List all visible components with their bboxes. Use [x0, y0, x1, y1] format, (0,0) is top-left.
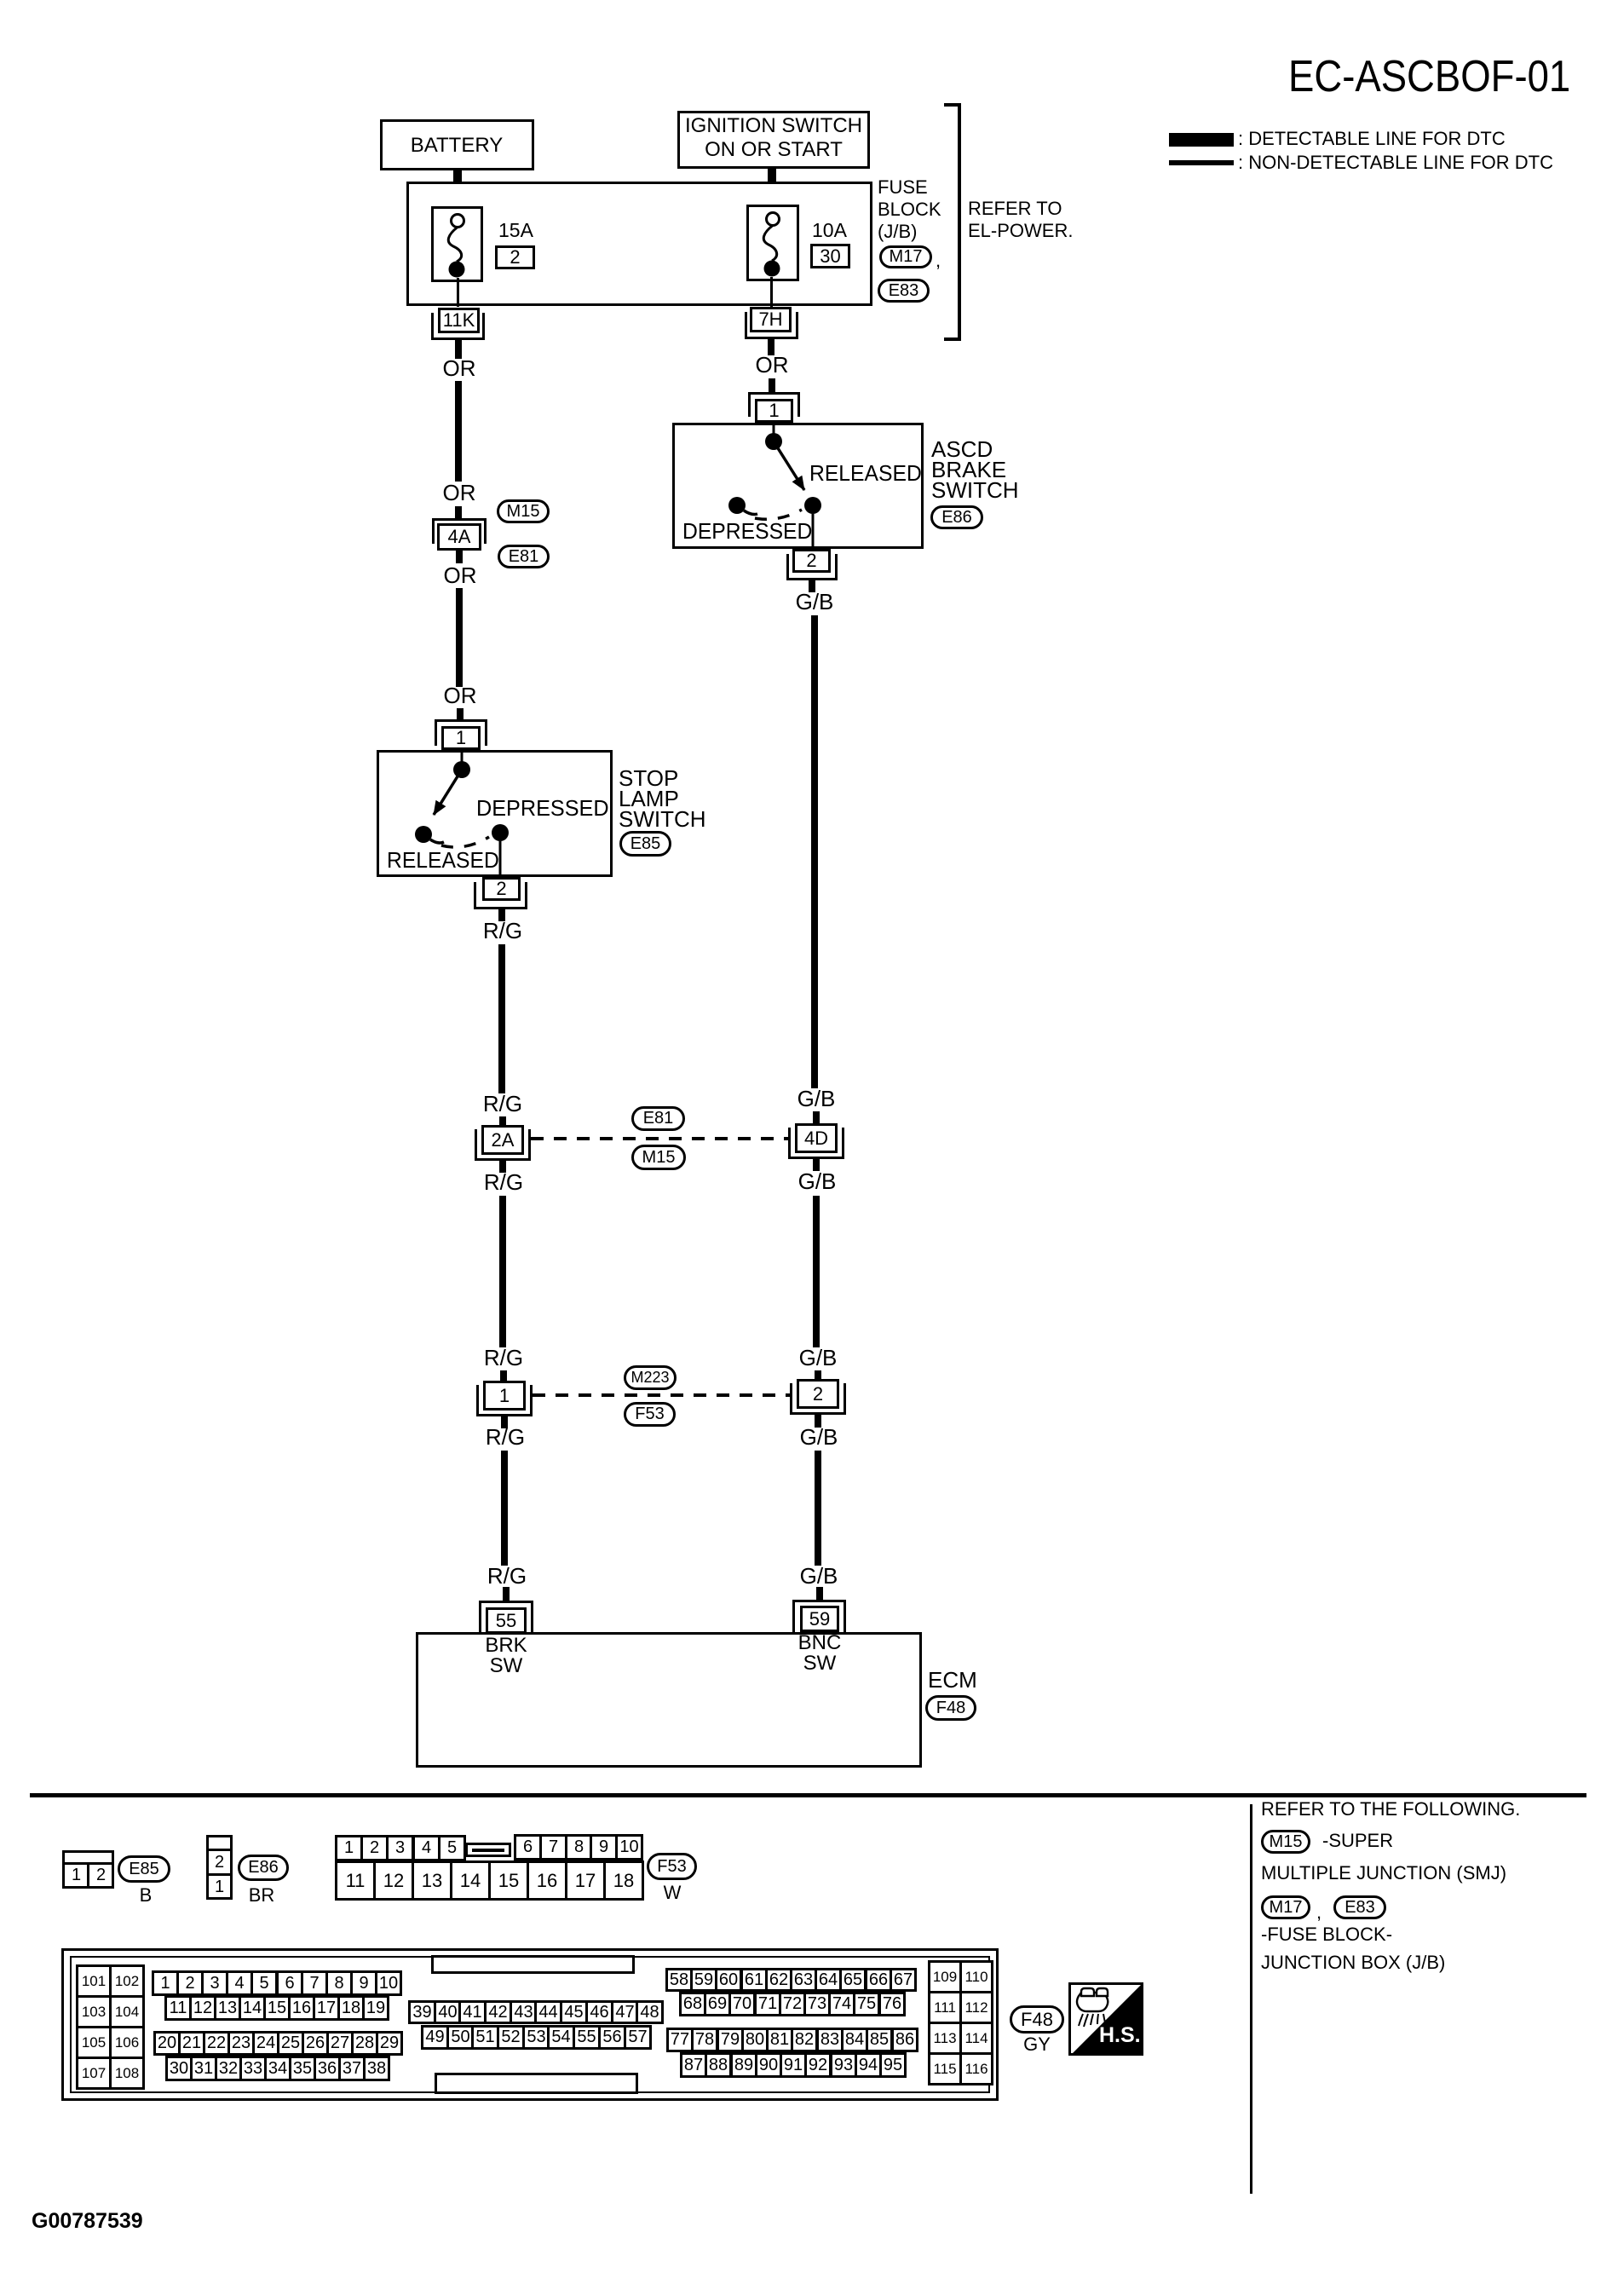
- note -FUSE BLOCK-: [1261, 1924, 1392, 1944]
- wire ignition switch to fuse block: [768, 166, 776, 182]
- fuse F 10A: [746, 205, 799, 281]
- ignition switch source: [677, 111, 870, 169]
- ECM pin 55 BRK SW: [479, 1601, 533, 1633]
- label 10A: [812, 220, 847, 240]
- connector ref E85: [619, 831, 671, 857]
- connector view F53 bottom row pins 11-18: [335, 1860, 376, 1901]
- label RELEASED (stop lamp): [387, 849, 499, 872]
- F48 bottom blank slot: [435, 2073, 638, 2094]
- connector ref M17 note: [1261, 1895, 1310, 1919]
- label RELEASED (ASCD): [809, 462, 922, 485]
- connector ref E86 bottom: [238, 1855, 289, 1881]
- wire stub below conn 1: [501, 1416, 508, 1428]
- wire battery to fuse block: [453, 168, 462, 182]
- wire stub into 4A: [455, 506, 462, 522]
- connector 1 (M223-F53): [476, 1385, 533, 1416]
- connector ref F48 bottom: [1010, 2005, 1064, 2034]
- bracket refer to el-power: [958, 103, 961, 341]
- connector ref M17: [879, 245, 932, 268]
- wire fuse2 to 7H: [770, 277, 773, 307]
- label G/B 1: [796, 591, 834, 614]
- comma after M17: [936, 251, 941, 270]
- connector view F53 top row pins 1-5: [335, 1835, 363, 1861]
- wire R/G long segment: [498, 944, 505, 1093]
- F48 pin row 87-95: [680, 2052, 707, 2078]
- battery: [380, 119, 534, 170]
- wire OR below 11K: [455, 340, 462, 359]
- F48 pin row 1-10: [152, 1970, 179, 1996]
- stop lamp switch box E85: [377, 750, 613, 877]
- connector view F53 keying slot: [465, 1843, 511, 1857]
- wire stub below 4D: [813, 1159, 820, 1171]
- label R/G 1: [483, 920, 522, 943]
- legend detectable line sample: [1169, 133, 1234, 147]
- note -SUPER: [1322, 1831, 1393, 1850]
- ASCD brake switch internals: [672, 423, 924, 549]
- fuse F 15A: [431, 206, 483, 282]
- connector ref M223: [624, 1365, 677, 1390]
- wire G/B segment 3: [815, 1451, 821, 1566]
- connector 7H: [745, 312, 798, 339]
- label DEPRESSED (stop lamp): [476, 797, 609, 820]
- F48 pin row 30-38: [165, 2056, 193, 2081]
- connector pin 1 ASCD brake switch: [748, 392, 800, 417]
- H.S. inspection logo: [1068, 1982, 1143, 2056]
- connector ref F53 bottom: [647, 1853, 697, 1880]
- wire R/G segment 2: [499, 1196, 506, 1347]
- label R/G above 55: [487, 1565, 527, 1588]
- connector 2 (M223-F53): [790, 1383, 846, 1415]
- connector pin 2 ASCD brake switch: [786, 554, 838, 580]
- wire stub below conn 2: [815, 1415, 821, 1428]
- wire R/G segment 3: [501, 1451, 508, 1566]
- comma note: [1316, 1902, 1321, 1922]
- separator line: [30, 1793, 1586, 1797]
- note REFER TO THE FOLLOWING: [1261, 1799, 1520, 1819]
- label OR 1: [443, 357, 476, 380]
- figure number G00787539: [32, 2210, 143, 2232]
- wire stub below 2A: [499, 1161, 506, 1173]
- F48 pin grid 101-108: [76, 1964, 112, 1998]
- wire stub into stop lamp pin 1: [457, 708, 464, 720]
- legend detectable text: [1238, 129, 1506, 148]
- connector ref M15 mid: [631, 1145, 686, 1170]
- dashed link E81/M15: [531, 1137, 788, 1140]
- wire OR long segment: [456, 588, 463, 687]
- label GY color: [1023, 2034, 1051, 2054]
- legend non-detectable text: [1238, 153, 1553, 172]
- connector 11K: [431, 313, 485, 340]
- connector 4A: [432, 518, 487, 544]
- connector 2A (SMJ): [475, 1129, 531, 1161]
- connector ref M15 note: [1261, 1830, 1310, 1854]
- label OR right: [756, 354, 789, 377]
- ECM box F48: [416, 1632, 922, 1768]
- label BRK SW: [485, 1635, 527, 1676]
- label G/B above 59: [800, 1565, 838, 1588]
- connector ref E81 at 4A: [498, 545, 550, 568]
- label R/G below 2A: [484, 1171, 523, 1194]
- dashed link M223/F53: [533, 1393, 790, 1397]
- label R/G below 1: [486, 1426, 525, 1449]
- F48 pin row 11-19: [164, 1995, 192, 2021]
- fuse number box 2: [495, 245, 535, 269]
- note JUNCTION BOX (J/B): [1261, 1953, 1445, 1972]
- ASCD brake switch box E86: [672, 423, 924, 549]
- wire G/B segment 2: [813, 1196, 820, 1347]
- label OR 4: [444, 684, 477, 707]
- note MULTIPLE JUNCTION (SMJ): [1261, 1863, 1506, 1883]
- svg-text:H.S.: H.S.: [1099, 2023, 1141, 2047]
- stop lamp switch internals: [377, 750, 613, 877]
- connector ref F48: [925, 1695, 976, 1721]
- connector view F53 top row pins 6-10: [514, 1834, 542, 1860]
- label BR color: [249, 1885, 275, 1905]
- F48 pin row 49-57: [421, 2025, 449, 2050]
- label R/G above 1: [484, 1347, 523, 1370]
- wire G/B long segment: [811, 615, 818, 1088]
- label OR 2: [443, 482, 476, 505]
- connector ref M15 at 4A: [497, 499, 550, 523]
- wire stub into conn 1: [500, 1370, 507, 1382]
- connector 4D (SMJ): [788, 1128, 844, 1159]
- fuse number box 30: [810, 244, 850, 268]
- connector pin 2 stop lamp switch: [474, 882, 527, 909]
- label 15A: [498, 220, 533, 240]
- F48 pin row 68-76: [679, 1992, 706, 2016]
- wire OR segment: [455, 381, 462, 482]
- label FUSE BLOCK (J/B): [878, 176, 941, 243]
- fuse block (J/B) box: [406, 182, 872, 306]
- notes divider vertical line: [1250, 1804, 1252, 2194]
- F48 pin row 58-67: [665, 1968, 693, 1992]
- legend non-detectable line sample: [1169, 160, 1234, 165]
- label R/G above 2A: [483, 1093, 522, 1116]
- label REFER TO EL-POWER: [968, 198, 1073, 242]
- F48 top blank slot: [431, 1955, 635, 1974]
- label B color: [140, 1885, 153, 1905]
- title EC-ASCBOF-01: [1288, 54, 1570, 101]
- label OR 3: [444, 564, 477, 587]
- connector view E86 (2-pin vertical): [206, 1835, 233, 1900]
- wire stub into conn 2: [815, 1370, 821, 1382]
- F48 pin row 39-48: [408, 2000, 436, 2024]
- wire stub into pin 59: [816, 1587, 823, 1601]
- connector view E85 (2-pin): [62, 1850, 114, 1889]
- label DEPRESSED (ASCD): [682, 520, 812, 543]
- wire stub into pin 55: [503, 1587, 510, 1602]
- connector ref F53 mid: [624, 1402, 676, 1427]
- wire stub into 4D: [813, 1111, 820, 1125]
- wire stub into ASCD pin 1: [769, 378, 775, 394]
- wire stub below 4A: [456, 551, 463, 563]
- label W color: [664, 1883, 682, 1902]
- label ECM: [928, 1669, 977, 1692]
- F48 pin row 20-29: [153, 2031, 181, 2056]
- label G/B above 2: [799, 1347, 838, 1370]
- label G/B below 2: [800, 1426, 838, 1449]
- label BNC SW: [798, 1633, 842, 1674]
- connector ref E83 note: [1333, 1895, 1386, 1919]
- wire stub below stop lamp pin 2: [498, 909, 505, 921]
- connector ref E85 bottom: [118, 1855, 170, 1883]
- wire fuse1 to 11K: [457, 278, 459, 307]
- ECM connector F48 outer box: [61, 1948, 999, 2101]
- connector pin 1 stop lamp switch: [435, 719, 487, 746]
- connector ref E83: [878, 279, 930, 303]
- connector ref E86: [930, 505, 983, 529]
- label ASCD BRAKE SWITCH: [931, 439, 1019, 500]
- ECM pin 59 BNC SW: [792, 1600, 846, 1632]
- wire OR below 7H: [768, 339, 774, 355]
- F48 pin grid 109-116: [928, 1960, 962, 1993]
- label G/B below 4D: [798, 1170, 837, 1193]
- label STOP LAMP SWITCH: [619, 768, 706, 829]
- F48 pin row 77-86: [666, 2028, 694, 2052]
- label G/B above 4D: [797, 1087, 836, 1111]
- wire stub below ASCD pin 2: [809, 580, 815, 592]
- wire stub into 2A: [499, 1116, 506, 1127]
- connector ref E81 mid: [631, 1106, 685, 1131]
